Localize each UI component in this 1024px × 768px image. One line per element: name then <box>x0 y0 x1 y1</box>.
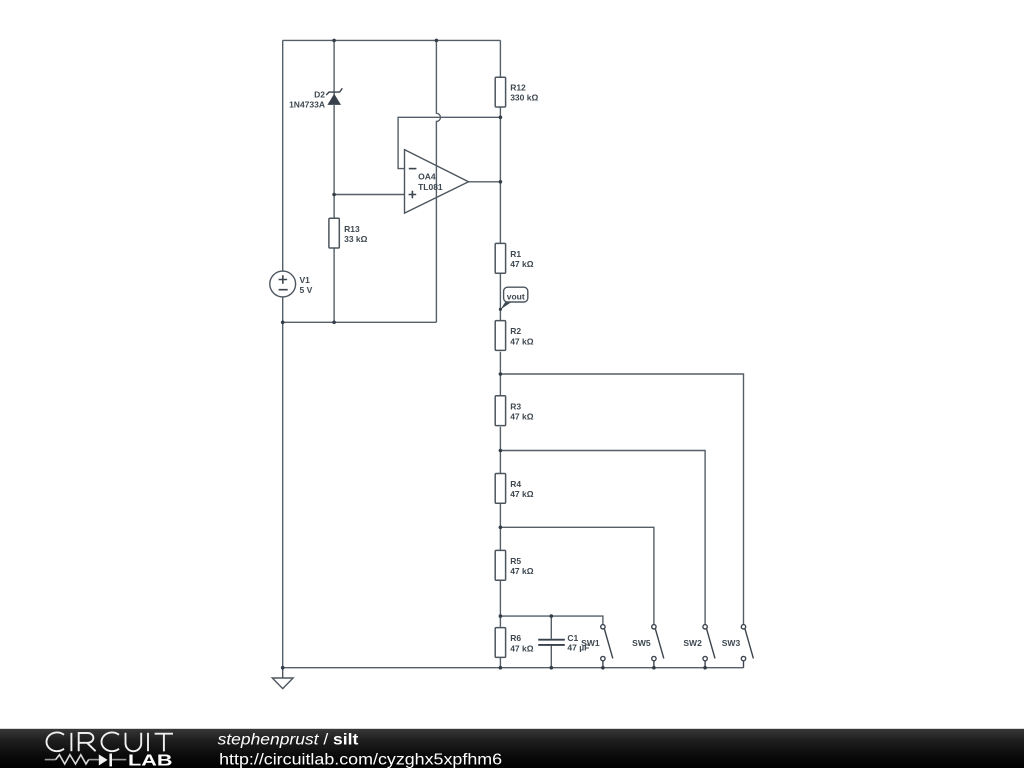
svg-text:LAB: LAB <box>128 753 173 768</box>
resistor R5 <box>495 550 505 580</box>
svg-text:D2: D2 <box>314 90 325 100</box>
svg-text:R4: R4 <box>510 479 521 489</box>
resistor R6 <box>495 628 505 658</box>
svg-text:http://circuitlab.com/cyzghx5x: http://circuitlab.com/cyzghx5xpfhm6 <box>219 751 502 768</box>
wire D2 to R13 <box>333 105 335 218</box>
svg-text:SW2: SW2 <box>683 638 702 648</box>
node label vout <box>500 287 527 309</box>
svg-text:TL081: TL081 <box>418 182 443 192</box>
node junction dots <box>281 39 707 670</box>
wire left rail <box>282 40 284 271</box>
switch SW2 <box>703 625 715 668</box>
svg-text:R6: R6 <box>510 633 521 643</box>
wire R13 bottom <box>333 248 335 323</box>
wire C1 top <box>550 616 552 639</box>
svg-text:1N4733A: 1N4733A <box>289 100 325 110</box>
wire D2 branch upper <box>333 40 335 96</box>
svg-text:5 V: 5 V <box>300 285 313 295</box>
logo diode <box>99 754 108 765</box>
logo resistor zigzag <box>56 755 89 764</box>
svg-text:SW1: SW1 <box>581 638 600 648</box>
zener diode D2 <box>326 88 342 105</box>
svg-text:33 kΩ: 33 kΩ <box>344 234 368 244</box>
logo LAB <box>128 753 173 768</box>
svg-text:330 kΩ: 330 kΩ <box>510 93 538 103</box>
ground <box>272 668 293 689</box>
wire V1 bottom to ground rail <box>282 297 284 668</box>
resistor R1 <box>495 243 505 273</box>
svg-text:R12: R12 <box>510 83 526 93</box>
svg-text:47 kΩ: 47 kΩ <box>510 643 534 653</box>
wire branch to SW5 <box>500 527 654 624</box>
wire C1 bottom <box>550 646 552 668</box>
svg-text:R2: R2 <box>510 326 521 336</box>
switch SW1 <box>601 625 613 668</box>
logo CIRCUIT (thin stroked letters) <box>46 732 173 751</box>
wire feedback <box>398 117 500 168</box>
wire vertical x436 with hop <box>436 40 440 322</box>
wire bottom rail <box>283 667 744 669</box>
wire mid horizontal <box>283 321 437 323</box>
wire branch to SW3 <box>500 374 743 625</box>
wire op-amp output <box>469 181 501 183</box>
svg-text:SW3: SW3 <box>722 638 741 648</box>
svg-text:R3: R3 <box>510 401 521 411</box>
svg-text:47 kΩ: 47 kΩ <box>510 566 534 576</box>
svg-text:47 kΩ: 47 kΩ <box>510 259 534 269</box>
voltage source V1 <box>270 271 296 297</box>
wire branch to SW1 and C1 <box>500 616 603 625</box>
svg-text:47 kΩ: 47 kΩ <box>510 412 534 422</box>
svg-text:stephenprust / silt: stephenprust / silt <box>218 732 359 749</box>
footer title <box>218 732 359 749</box>
wire right column <box>499 40 501 667</box>
capacitor C1 <box>538 640 565 645</box>
switch SW5 <box>652 625 664 668</box>
resistor R12 <box>495 77 505 107</box>
resistor R13 <box>329 218 339 248</box>
svg-text:R5: R5 <box>510 556 521 566</box>
wire branch to SW2 <box>500 451 705 625</box>
svg-text:vout: vout <box>507 291 525 301</box>
switch SW3 <box>741 625 753 668</box>
svg-text:R13: R13 <box>344 224 360 234</box>
svg-text:SW5: SW5 <box>632 638 651 648</box>
svg-text:R1: R1 <box>510 249 521 259</box>
svg-text:47 kΩ: 47 kΩ <box>510 336 534 346</box>
op-amp OA4 <box>405 150 469 214</box>
wire plus input <box>334 194 404 196</box>
svg-text:V1: V1 <box>300 275 311 285</box>
footer url <box>219 751 502 768</box>
svg-text:47 kΩ: 47 kΩ <box>510 489 534 499</box>
wire top rail <box>283 39 501 41</box>
footer bar <box>0 729 1024 768</box>
resistor R4 <box>495 474 505 504</box>
svg-text:OA4: OA4 <box>418 172 436 182</box>
resistor R2 <box>495 321 505 351</box>
logo resistor-diode glyph <box>45 759 127 761</box>
resistor R3 <box>495 396 505 426</box>
